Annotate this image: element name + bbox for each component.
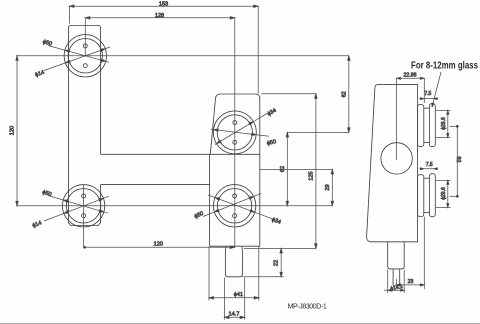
svg-text:29: 29 (325, 184, 331, 190)
side view body outline (367, 85, 418, 242)
leader Phi50 top-left clamp (42, 39, 109, 62)
dimension 62 (right, circle centers upper) (342, 56, 351, 133)
svg-text:22.98: 22.98 (404, 73, 417, 79)
dimension 120 (left vertical) (9, 56, 18, 206)
svg-text:153: 153 (159, 2, 168, 8)
dimension 23 (bottom) (397, 217, 425, 289)
svg-text:23: 23 (408, 279, 414, 285)
svg-text:ϕ29.6: ϕ29.6 (441, 117, 447, 130)
dimension 125 (right vertical) (308, 94, 317, 249)
leader Phi14 top-left clamp (34, 47, 110, 78)
left column body outline (69, 26, 101, 226)
leader Phi34 bottom-middle clamp (208, 195, 282, 226)
svg-text:7.5: 7.5 (426, 162, 433, 168)
side view bottom stem (388, 242, 405, 286)
dimension 120 (bottom) (83, 241, 234, 248)
svg-text:62: 62 (280, 166, 286, 172)
svg-text:For 8-12mm glass: For 8-12mm glass (411, 60, 478, 71)
bottom clamp pad (side view) (418, 174, 436, 217)
dimension 22.98 (397, 73, 425, 103)
vertical centerline middle clamps (234, 18, 236, 248)
leader Phi34 middle-top clamp (215, 108, 278, 145)
bottom-middle clamp circle (Phi50/Phi34) (213, 185, 255, 227)
dimension 14.7 (224, 278, 244, 320)
dimension Phi41 (209, 246, 259, 300)
leader Phi50 middle-top clamp (211, 129, 277, 147)
bottom-left clamp circle (Phi50/Phi14) (62, 185, 104, 227)
leader Phi14 bottom-left clamp (32, 196, 109, 229)
note leader line (432, 72, 441, 107)
dimension 59 (pad centers) (450, 125, 464, 198)
dimension 7.5 (top pad) (420, 91, 439, 100)
svg-text:120: 120 (9, 126, 15, 135)
vertical centerline bottom-left clamp (83, 185, 85, 248)
dimension Phi14.2 (stem) (384, 270, 404, 294)
svg-text:59: 59 (457, 156, 463, 162)
bottom edge line (0, 323, 480, 324)
svg-text:125: 125 (308, 171, 314, 180)
leader Phi50 bottom-middle clamp (194, 194, 261, 221)
svg-text:14.7: 14.7 (229, 312, 240, 318)
connecting arm outline (101, 154, 260, 184)
svg-text:MP-J8300D-1: MP-J8300D-1 (288, 303, 327, 310)
svg-text:ϕ41: ϕ41 (234, 292, 243, 298)
svg-text:ϕ29.6: ϕ29.6 (441, 187, 447, 200)
dimension 22 (stem height) (242, 248, 283, 276)
svg-text:62: 62 (342, 91, 348, 97)
dimension 153 (top) (69, 2, 258, 94)
horizontal centerline bottom clamps row (16, 205, 332, 207)
leader Phi50 bottom-left clamp (41, 190, 108, 214)
middle column body outline (210, 97, 260, 246)
extension line arm center (260, 168, 333, 170)
dimension 7.5 (bottom pad) (420, 162, 439, 170)
dimension Phi29.6 (bottom pad) (436, 180, 451, 207)
extension line middle column bottom (244, 247, 316, 249)
middle clamp body (rounded top) (210, 94, 259, 154)
svg-text:7.5: 7.5 (424, 91, 431, 97)
top clamp pad (side view) (418, 104, 436, 147)
side view knob circle (381, 143, 412, 174)
dimension 128 (85, 13, 235, 19)
side view centerline (396, 78, 398, 160)
horizontal centerline middle-top clamp (287, 131, 349, 133)
svg-text:22: 22 (274, 260, 280, 266)
dimension 62 (middle, circle centers lower) (280, 132, 288, 205)
dimension Phi29.6 (top pad) (436, 110, 451, 137)
top-left clamp circle (Phi50/Phi14) (64, 35, 106, 77)
middle-top clamp circle (Phi50/Phi34) (213, 111, 256, 154)
dimension 29 (325, 169, 334, 205)
svg-text:120: 120 (154, 241, 163, 247)
vertical centerline top-left clamp (84, 18, 86, 57)
extension line middle body top (261, 93, 316, 95)
svg-text:128: 128 (155, 13, 164, 19)
bottom stem of middle column (225, 246, 242, 276)
horizontal centerline top clamps row (16, 55, 349, 57)
